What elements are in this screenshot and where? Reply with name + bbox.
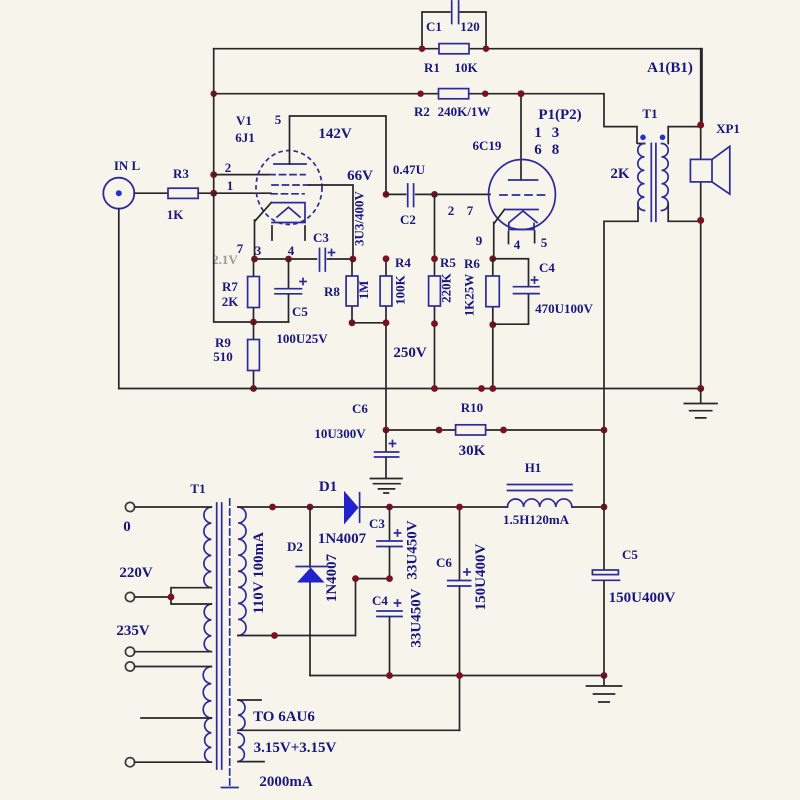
capacitor C2 coupling 0.47U bbox=[386, 184, 435, 207]
label R10 bbox=[461, 400, 483, 415]
label IN L bbox=[114, 158, 141, 173]
svg-text:1: 1 bbox=[534, 125, 542, 141]
node grid upper bbox=[210, 171, 217, 178]
pin labels 6 8 bbox=[534, 142, 559, 158]
svg-text:R3: R3 bbox=[173, 166, 189, 181]
label 2000mA bbox=[259, 774, 312, 790]
power transformer heater windings bbox=[238, 700, 245, 762]
svg-text:142V: 142V bbox=[318, 126, 352, 142]
svg-text:6: 6 bbox=[534, 142, 542, 158]
pin 2 label P1 bbox=[448, 203, 455, 218]
wire heater stub 3.15V bbox=[238, 761, 264, 763]
svg-text:0: 0 bbox=[123, 519, 131, 535]
svg-text:120: 120 bbox=[460, 19, 480, 34]
wire C2 to P1 grid bbox=[435, 193, 491, 195]
diode D1 1N4007 bbox=[344, 491, 360, 525]
capacitor C5 cathode bypass bbox=[275, 259, 306, 322]
svg-text:C1: C1 bbox=[426, 19, 442, 34]
label D2 bbox=[287, 539, 303, 554]
label 142V bbox=[318, 126, 352, 142]
label R6 value 1K25W (rotated) bbox=[462, 274, 477, 317]
pin 4 label bbox=[514, 237, 521, 252]
svg-text:1N4007: 1N4007 bbox=[324, 553, 340, 602]
label R9 value 510 bbox=[213, 349, 233, 364]
label TO 6AU6 bbox=[253, 709, 315, 725]
capacitor C3 (cathode-screen) bbox=[320, 249, 335, 272]
resistor R8 bbox=[346, 259, 358, 323]
label C4 bbox=[539, 260, 555, 275]
label 3.15V+3.15V bbox=[254, 740, 337, 756]
terminal lower primary top bbox=[125, 662, 211, 671]
label R10 value 30K bbox=[459, 443, 486, 459]
wire R3 to grid junction bbox=[198, 94, 214, 194]
label R4 bbox=[395, 255, 411, 270]
wire R5 riser bbox=[434, 194, 436, 276]
node R10 to riser bbox=[601, 427, 608, 434]
node 220V tap bbox=[168, 594, 175, 601]
wire OPT secondary to speaker bbox=[668, 49, 701, 389]
node C6 filter top bbox=[456, 504, 463, 511]
node R4 top bbox=[383, 255, 390, 262]
label C3 value 33U450V (rotated) bbox=[405, 520, 421, 579]
label 2K bbox=[610, 166, 630, 182]
V1 grid 3 dashes bbox=[271, 193, 304, 195]
node HV bottom winding dot bbox=[271, 632, 278, 639]
label C6 filter bbox=[436, 555, 452, 570]
pin 2 label bbox=[225, 160, 232, 175]
label 0 bbox=[123, 519, 131, 535]
svg-text:100K: 100K bbox=[393, 274, 408, 305]
wire 250V node to C6/R10 bbox=[386, 429, 604, 431]
label 3U3/400V (rotated) bbox=[352, 190, 367, 246]
capacitor C3 filter 33U450V bbox=[377, 507, 402, 579]
terminal 220V with tap bbox=[125, 588, 211, 604]
svg-text:D2: D2 bbox=[287, 539, 303, 554]
label 235V bbox=[116, 623, 150, 639]
label R2 240K/1W bbox=[414, 104, 490, 119]
label P1(P2) bbox=[538, 107, 581, 123]
node choke right / riser bbox=[601, 504, 608, 511]
node speaker top bbox=[697, 122, 704, 129]
node grid lower bbox=[210, 190, 217, 197]
svg-text:30K: 30K bbox=[459, 443, 486, 459]
power transformer HV secondary winding bbox=[238, 507, 246, 635]
resistor R2 bbox=[439, 89, 469, 99]
resistor R3 bbox=[168, 188, 198, 198]
svg-text:3: 3 bbox=[255, 243, 262, 258]
svg-text:1N4007: 1N4007 bbox=[318, 531, 367, 547]
svg-text:R1: R1 bbox=[424, 60, 440, 75]
svg-text:100U25V: 100U25V bbox=[276, 331, 328, 346]
svg-text:C4: C4 bbox=[372, 593, 388, 608]
svg-text:R7: R7 bbox=[222, 279, 238, 294]
svg-text:R9: R9 bbox=[215, 335, 231, 350]
label V1 bbox=[236, 113, 252, 128]
node R1 right junction bbox=[483, 46, 489, 52]
label R4 value 100K (rotated) bbox=[393, 274, 408, 305]
V1 grid 1 dashes bbox=[269, 174, 305, 176]
label tube type 6C19 bbox=[473, 138, 502, 153]
tube P1 envelope bbox=[489, 160, 556, 230]
pin 9 label bbox=[476, 233, 483, 248]
label 66V bbox=[347, 168, 373, 184]
wire grid-return row at cathode bottom bbox=[214, 193, 289, 322]
node R4 bottom bbox=[383, 319, 390, 326]
node bus ground bbox=[697, 385, 704, 392]
label 0.47U bbox=[393, 162, 426, 177]
power transformer core bbox=[217, 503, 222, 769]
label 110V 100mA (rotated) bbox=[251, 532, 267, 614]
label T1 output transformer bbox=[642, 106, 657, 121]
node bus R6 bbox=[489, 385, 496, 392]
svg-text:5: 5 bbox=[275, 112, 282, 127]
label 220V bbox=[119, 565, 153, 581]
node speaker bottom bbox=[697, 217, 704, 224]
terminal lower primary bottom bbox=[125, 758, 211, 767]
svg-text:3: 3 bbox=[552, 125, 560, 141]
label C6 bbox=[352, 401, 368, 416]
svg-text:C5: C5 bbox=[292, 304, 308, 319]
label R7 value 2K bbox=[222, 294, 240, 309]
label R1 10K bbox=[424, 60, 478, 75]
svg-text:R8: R8 bbox=[324, 284, 340, 299]
svg-text:235V: 235V bbox=[116, 623, 150, 639]
svg-text:3.15V+3.15V: 3.15V+3.15V bbox=[254, 740, 337, 756]
wire jack ground drop bbox=[118, 209, 120, 389]
svg-text:150U400V: 150U400V bbox=[609, 590, 676, 606]
svg-text:8: 8 bbox=[552, 142, 560, 158]
svg-text:0.47U: 0.47U bbox=[393, 162, 426, 177]
label C4 value 33U450V (rotated) bbox=[409, 588, 425, 647]
label C6 value 10U300V bbox=[314, 426, 366, 441]
node rectifier output bbox=[386, 504, 393, 511]
wire mid node to HV winding bottom bbox=[238, 579, 390, 636]
label D1 value 1N4007 bbox=[318, 531, 367, 547]
svg-text:10K: 10K bbox=[454, 60, 478, 75]
svg-text:33U450V: 33U450V bbox=[409, 588, 425, 647]
svg-text:6J1: 6J1 bbox=[235, 130, 255, 145]
node R10 right dot bbox=[500, 427, 507, 434]
svg-text:250V: 250V bbox=[393, 345, 427, 361]
svg-text:510: 510 bbox=[213, 349, 233, 364]
svg-text:5: 5 bbox=[541, 235, 548, 250]
node R10 left dot bbox=[436, 427, 443, 434]
pin 3 label bbox=[255, 243, 262, 258]
resistor R7 bbox=[248, 259, 260, 322]
node HV top winding dot bbox=[269, 504, 276, 511]
svg-text:2: 2 bbox=[225, 160, 232, 175]
svg-text:3U3/400V: 3U3/400V bbox=[352, 190, 367, 246]
speaker XP1 bbox=[690, 146, 729, 194]
wire B+ rail top from R1 to A1(B1) corner bbox=[214, 49, 702, 125]
label C4 filter bbox=[372, 593, 388, 608]
svg-text:6C19: 6C19 bbox=[473, 138, 502, 153]
label 2.1V (gray) bbox=[212, 252, 238, 267]
label H1 value 1.5H120mA bbox=[503, 512, 570, 527]
svg-text:110V 100mA: 110V 100mA bbox=[251, 532, 267, 614]
label C4 value 470U100V bbox=[535, 301, 593, 316]
svg-text:C6: C6 bbox=[352, 401, 368, 416]
terminal 0 bbox=[125, 502, 211, 511]
svg-text:V1: V1 bbox=[236, 113, 252, 128]
node R2 right bbox=[482, 91, 488, 97]
capacitor C1 bbox=[422, 1, 486, 49]
wire heater center tap to ground bbox=[238, 729, 460, 731]
V1 cathode structure bbox=[255, 203, 306, 259]
resistor R9 bbox=[248, 322, 260, 389]
pin 5 label bbox=[541, 235, 548, 250]
svg-text:C3: C3 bbox=[313, 230, 329, 245]
svg-text:66V: 66V bbox=[347, 168, 373, 184]
node R7 bottom / R9 top bbox=[250, 319, 257, 326]
svg-text:C5: C5 bbox=[622, 547, 638, 562]
choke H1 bbox=[508, 485, 573, 508]
resistor R5 bbox=[429, 276, 441, 389]
resistor R10 bbox=[456, 425, 486, 435]
node bus R5 bbox=[431, 385, 438, 392]
wire jack to R3 bbox=[134, 192, 168, 194]
PSU ground bus bbox=[310, 675, 604, 677]
svg-text:TO 6AU6: TO 6AU6 bbox=[253, 709, 315, 725]
power transformer shield dashed line with tick bbox=[222, 499, 239, 788]
label R8 bbox=[324, 284, 340, 299]
node PSU bus right bbox=[601, 672, 608, 679]
pin labels 1 3 bbox=[534, 125, 559, 141]
power transformer T1 label bbox=[190, 481, 205, 496]
label R9 bbox=[215, 335, 231, 350]
node R1 left junction bbox=[419, 46, 425, 52]
svg-text:2K: 2K bbox=[610, 166, 630, 182]
svg-text:R6: R6 bbox=[464, 256, 480, 271]
V1 screen wire to 66V node bbox=[309, 185, 353, 259]
resistor R4 bbox=[380, 259, 392, 430]
svg-text:2: 2 bbox=[448, 203, 455, 218]
node R5 mid dot bbox=[431, 320, 438, 327]
V1 plate and riser wire to 142V node bbox=[274, 116, 386, 194]
power transformer T1 primary windings bbox=[203, 507, 211, 762]
svg-text:33U450V: 33U450V bbox=[405, 520, 421, 579]
diode D2 1N4007 vertical bbox=[296, 507, 326, 676]
capacitor C6 filter 150U400V bbox=[448, 507, 471, 730]
node PSU bus C6/heater bbox=[456, 672, 463, 679]
P1 heater stubs pins 4 5 bbox=[509, 224, 535, 244]
resistor R1 bbox=[439, 44, 469, 54]
svg-text:R10: R10 bbox=[461, 400, 483, 415]
pin 7 label bbox=[237, 241, 244, 256]
output transformer T1 primary wire from B+ bbox=[604, 144, 645, 431]
terminal 235V bbox=[125, 647, 211, 656]
output transformer T1 bbox=[638, 135, 668, 222]
node mid C3/C4 bbox=[386, 575, 393, 582]
capacitor C6 10U300V bbox=[375, 430, 399, 478]
svg-text:IN L: IN L bbox=[114, 158, 141, 173]
wire grid pins into V1 bbox=[214, 175, 271, 194]
svg-text:XP1: XP1 bbox=[716, 121, 740, 136]
svg-text:P1(P2): P1(P2) bbox=[538, 107, 581, 123]
pin 4 label bbox=[288, 243, 295, 258]
node pin9 / R6 top bbox=[489, 255, 496, 262]
P1 plate bar bbox=[509, 179, 538, 181]
svg-text:1K25W: 1K25W bbox=[462, 274, 477, 317]
svg-text:2K: 2K bbox=[222, 294, 240, 309]
svg-text:D1: D1 bbox=[319, 479, 337, 495]
label R3 value 1K bbox=[167, 207, 185, 222]
label R8 value 1M (rotated) bbox=[356, 281, 371, 300]
node mid left bbox=[352, 575, 359, 582]
ground symbol PSU bbox=[587, 676, 622, 703]
label C5 value 150U400V bbox=[609, 590, 676, 606]
svg-text:4: 4 bbox=[514, 237, 521, 252]
node R8 bottom bbox=[349, 319, 356, 326]
node C6 top bbox=[383, 427, 390, 434]
wire lower primary tap stub bbox=[141, 717, 211, 719]
node R2 wire dot bbox=[417, 91, 423, 97]
node R5 top bbox=[431, 255, 438, 262]
resistor R6 bbox=[486, 259, 499, 389]
wire cathode node row bbox=[255, 258, 354, 260]
svg-text:R4: R4 bbox=[395, 255, 411, 270]
label C5 filter bbox=[622, 547, 638, 562]
P1 cathode structure bbox=[494, 210, 538, 259]
capacitor C4 filter 33U450V bbox=[377, 600, 402, 676]
wire R2 feedback row bbox=[214, 49, 637, 180]
svg-text:R5: R5 bbox=[440, 255, 456, 270]
svg-text:220K: 220K bbox=[439, 272, 454, 303]
label R5 bbox=[440, 255, 456, 270]
node R2 left bbox=[211, 91, 217, 97]
svg-text:2.1V: 2.1V bbox=[212, 252, 238, 267]
svg-text:C6: C6 bbox=[436, 555, 452, 570]
label C3 bbox=[313, 230, 329, 245]
node bus extra bbox=[478, 385, 485, 392]
svg-text:1.5H120mA: 1.5H120mA bbox=[503, 512, 570, 527]
label C3 filter bbox=[369, 516, 385, 531]
capacitor C5 filter 150U400V bbox=[592, 430, 619, 676]
node pin7 / R7 top bbox=[251, 256, 258, 263]
label H1 bbox=[525, 460, 542, 475]
node P1 plate riser bbox=[518, 90, 525, 97]
label R5 value 220K (rotated) bbox=[439, 272, 454, 303]
svg-text:240K/1W: 240K/1W bbox=[438, 104, 491, 119]
wire heater stub TO 6AU6 bbox=[238, 699, 261, 701]
P1 grid dashes bbox=[500, 194, 546, 196]
svg-text:1: 1 bbox=[227, 178, 234, 193]
svg-text:10U300V: 10U300V bbox=[314, 426, 366, 441]
ground bus of amplifier stage bbox=[119, 388, 701, 390]
node C2 right / P1 grid bbox=[431, 191, 438, 198]
svg-text:A1(B1): A1(B1) bbox=[647, 60, 693, 76]
node R9 bottom on ground bus bbox=[250, 385, 257, 392]
ground symbol C6 bbox=[371, 479, 403, 494]
label C5 bbox=[292, 304, 308, 319]
label D2 value 1N4007 (rotated) bbox=[324, 553, 340, 602]
label C6 value 150U400V (rotated) bbox=[473, 544, 489, 611]
label 250V bbox=[393, 345, 427, 361]
svg-text:150U400V: 150U400V bbox=[473, 544, 489, 611]
label R3 bbox=[173, 166, 189, 181]
tube V1 envelope (dashed) bbox=[256, 151, 322, 225]
svg-text:1K: 1K bbox=[167, 207, 185, 222]
label C2 bbox=[400, 212, 416, 227]
svg-text:9: 9 bbox=[476, 233, 483, 248]
svg-text:1M: 1M bbox=[356, 281, 371, 300]
wire HV secondary top rail to choke bbox=[238, 506, 604, 508]
node D2 top bbox=[307, 504, 314, 511]
label A1(B1) bbox=[647, 60, 693, 76]
label C5 value 100U25V bbox=[276, 331, 328, 346]
svg-text:2000mA: 2000mA bbox=[259, 774, 312, 790]
label D1 bbox=[319, 479, 337, 495]
svg-text:R2: R2 bbox=[414, 104, 430, 119]
V1 heater pin stubs 3 and 4 bbox=[272, 226, 305, 240]
label XP1 bbox=[716, 121, 740, 136]
svg-text:T1: T1 bbox=[190, 481, 205, 496]
pin 7 label P1 bbox=[467, 203, 474, 218]
label C1 value 120 bbox=[426, 19, 480, 34]
V1 grid 2 dashes bbox=[272, 184, 309, 186]
label R6 bbox=[464, 256, 480, 271]
svg-text:H1: H1 bbox=[525, 460, 542, 475]
svg-text:C4: C4 bbox=[539, 260, 555, 275]
capacitor C4 cathode bypass 470U100V bbox=[493, 259, 539, 324]
label V1 type 6J1 bbox=[235, 130, 255, 145]
node PSU bus C4 bbox=[386, 672, 393, 679]
svg-text:T1: T1 bbox=[642, 106, 657, 121]
svg-text:C2: C2 bbox=[400, 212, 416, 227]
svg-text:7: 7 bbox=[467, 203, 474, 218]
pin 1 label bbox=[227, 178, 234, 193]
node R8 top / screen bbox=[350, 256, 357, 263]
svg-text:C3: C3 bbox=[369, 516, 385, 531]
svg-text:470U100V: 470U100V bbox=[535, 301, 593, 316]
wire R8 bottom to R4 bottom bbox=[352, 322, 386, 324]
pin 5 label V1 plate bbox=[275, 112, 282, 127]
node pin4 / C5 top bbox=[285, 256, 292, 263]
svg-text:220V: 220V bbox=[119, 565, 153, 581]
input jack IN L bbox=[103, 178, 134, 209]
label R7 bbox=[222, 279, 238, 294]
ground symbol main bbox=[684, 389, 717, 418]
node C2 left / 142V riser bbox=[383, 191, 390, 198]
node R6 bottom bbox=[489, 321, 496, 328]
